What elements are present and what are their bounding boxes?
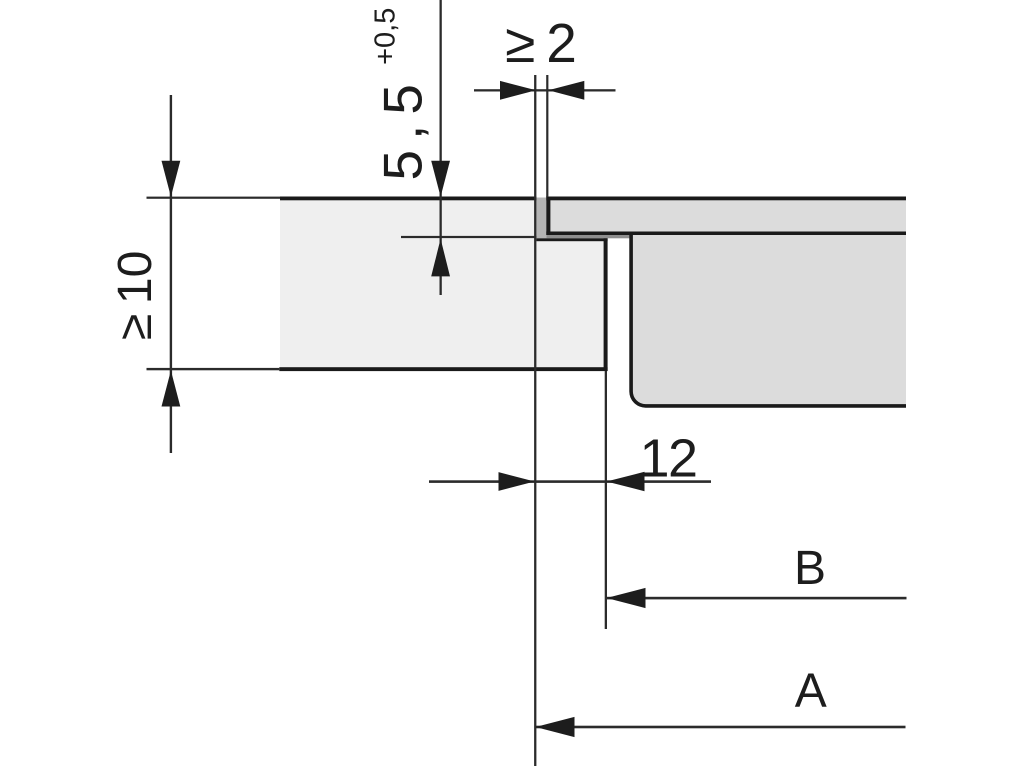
extension line gap left (long vertical) (534, 75, 536, 766)
dimension line B (606, 597, 907, 600)
arrow 12 right (left-pointing) (607, 472, 645, 491)
extension line gap right (glass edge) (546, 75, 548, 197)
arrow >=2 left (right-pointing) (500, 81, 536, 100)
extension line countertop bottom (left) (147, 368, 280, 370)
extension line rebate depth (5,5) (401, 236, 536, 238)
countertop top surface thick line (280, 197, 536, 201)
glass panel bottom border (546, 232, 906, 236)
glass panel fill (appliance top, flush) (546, 198, 906, 233)
countertop cross-section (worktop slab with rebate) (280, 197, 606, 369)
svg-text:5,5: 5,5 (372, 74, 434, 180)
arrow A (left-pointing) (536, 717, 575, 737)
seal vertical strip in 2mm gap (536, 198, 546, 239)
arrow >=2 right (left-pointing) (548, 81, 584, 100)
dimension line 5,5 vertical (440, 0, 442, 295)
glass panel top border (546, 197, 906, 201)
svg-text:12: 12 (639, 428, 696, 488)
glass panel left border (546, 197, 550, 236)
dimension line >=10 vertical (170, 95, 172, 453)
arrow B (left-pointing) (607, 588, 646, 608)
extension line top surface (left) (147, 197, 281, 199)
arrow 5,5 bottom (up) (431, 239, 450, 277)
arrow >=10 bottom (up) (162, 371, 181, 407)
dimension line >=2 horizontal (474, 89, 616, 91)
arrow 12 left (right-pointing) (499, 472, 535, 491)
svg-text:B: B (794, 542, 826, 595)
arrow >=10 top (down) (162, 161, 181, 197)
countertop bottom thick line (279, 367, 607, 371)
svg-text:≥ 2: ≥ 2 (505, 12, 577, 74)
svg-text:+0,5: +0,5 (370, 8, 402, 65)
countertop cutout edge thick line (604, 238, 608, 371)
appliance body fill (629, 235, 906, 408)
svg-text:A: A (795, 665, 827, 718)
countertop rebate ledge line (536, 238, 607, 241)
seal tape under glass edge (546, 235, 631, 238)
dimension line A (536, 726, 906, 729)
arrow 5,5 top (down) (431, 161, 450, 197)
svg-text:≥ 10: ≥ 10 (109, 251, 162, 340)
extension line cutout edge (below countertop) (605, 371, 607, 629)
dimension line 12 horizontal (429, 480, 711, 483)
appliance body outline (left wall + rounded corner + bottom) (631, 235, 906, 406)
